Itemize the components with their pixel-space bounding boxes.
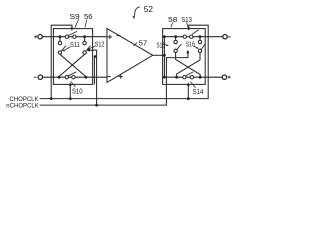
node top rail / S12 tap: [83, 35, 86, 38]
arrow to S10: [69, 82, 72, 85]
junction CHOPCLK-leftriser: [50, 97, 53, 100]
leader S14 label: [190, 82, 195, 88]
box 56 (input chopper): [53, 29, 92, 85]
CHOPCLK riser to S14: [187, 85, 189, 98]
junction nCHOPCLK riser: [95, 104, 98, 107]
output terminal + (bottom right): [222, 75, 226, 79]
svg-text:S13: S13: [181, 15, 192, 24]
CHOPCLK left riser to left box (outer loop): [51, 25, 72, 98]
svg-text:S16: S16: [186, 39, 195, 48]
leader S10 label: [71, 81, 76, 87]
junction CHOPCLK-S10 riser: [69, 97, 72, 100]
svg-text:S15: S15: [156, 40, 165, 49]
leader 58 label: [171, 23, 173, 28]
node bottom rail / cross tap right: [85, 76, 88, 79]
svg-text:52: 52: [144, 5, 154, 14]
arrow to S14: [187, 82, 190, 85]
amp - (bottom): [107, 76, 111, 78]
svg-text:S10: S10: [72, 86, 83, 95]
switch S13: [183, 35, 186, 38]
switch S11: [59, 37, 61, 42]
bottom rail (left, - input to amp): [43, 76, 108, 78]
CHOPCLK arrow to S13: [187, 28, 190, 31]
svg-text:57: 57: [139, 38, 147, 47]
S12 leader arrow: [88, 46, 95, 49]
nCHOPCLK branch in left box: [94, 57, 96, 85]
leader S9 label: [75, 20, 79, 28]
op-amp 57: [107, 29, 153, 83]
amp + (top input): [108, 35, 112, 39]
svg-text:nCHOPCLK: nCHOPCLK: [6, 103, 39, 110]
node bottom rail / cross tap left: [58, 76, 61, 79]
svg-text:58: 58: [168, 15, 177, 24]
node top rail / S16 tap: [199, 35, 202, 38]
nCHOPCLK arrow up (right box S15/S16): [186, 50, 189, 53]
output - mark: [228, 36, 231, 38]
wire amp output: [153, 54, 165, 56]
nCHOPCLK line: [40, 53, 188, 105]
node top rail / S11 tap: [59, 35, 62, 38]
junction CHOPCLK-S14 riser: [187, 97, 190, 100]
switch S12: [84, 37, 86, 42]
leader 57 label: [133, 42, 137, 46]
input - mark: [34, 76, 37, 78]
wire cross S12 to bottom rail: [59, 54, 85, 77]
output + mark: [228, 76, 231, 79]
box 58 (output chopper): [163, 29, 206, 85]
leader S13 label: [187, 22, 189, 27]
S16 leader arrow: [194, 46, 198, 48]
CHOPCLK line: [40, 25, 209, 98]
node amp output: [163, 54, 166, 57]
node bottom rail / cross tap left (right box): [175, 76, 178, 79]
52 hook arrow: [134, 7, 140, 17]
input terminal +: [38, 35, 42, 39]
nCHOPCLK arrow to S12: [87, 49, 90, 52]
svg-text:56: 56: [84, 12, 93, 21]
input + mark: [34, 35, 37, 38]
S11 leader arrow: [64, 47, 71, 51]
svg-text:S14: S14: [193, 87, 204, 96]
switch S15: [175, 37, 177, 41]
wire cross S15 to bottom rail: [176, 53, 201, 78]
wire cross S16 to bottom rail: [177, 53, 200, 78]
switch S14: [183, 76, 186, 79]
input terminal -: [38, 75, 42, 79]
svg-text:S9: S9: [70, 12, 80, 21]
node output to bottom rail: [163, 76, 166, 79]
leader 56 label: [85, 20, 87, 28]
node output to top rail: [163, 35, 166, 38]
junction branch dot: [94, 55, 97, 58]
wire cross S11 to bottom rail: [60, 54, 86, 77]
switch S9: [65, 35, 68, 38]
amp - (top): [117, 35, 121, 37]
S15 leader arrow: [164, 44, 168, 46]
nCHOPCLK riser to left box: [90, 50, 97, 105]
top rail (left, + input to amp): [42, 36, 107, 38]
switch S10: [65, 76, 68, 79]
wire output split vertical: [163, 37, 165, 77]
svg-text:S11: S11: [70, 40, 80, 49]
switch S16: [199, 37, 201, 41]
right box bottom rail: [164, 76, 222, 78]
CHOPCLK arrow to S9: [70, 28, 73, 31]
node top rail / S15 tap: [174, 35, 177, 38]
CHOPCLK riser to S10: [69, 85, 71, 98]
amp + (bottom): [119, 75, 123, 79]
svg-text:S12: S12: [95, 39, 105, 48]
node bottom rail / cross tap right (right box): [199, 76, 202, 79]
right box top rail: [164, 36, 222, 38]
output terminal - (top right): [223, 35, 227, 39]
